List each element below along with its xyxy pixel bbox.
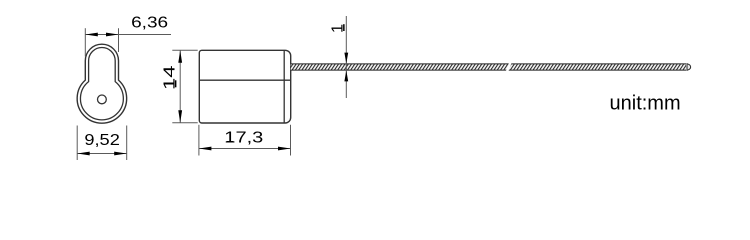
- cable tip: [687, 64, 691, 71]
- dimension 9,52 arrow right: [114, 152, 127, 156]
- body side view outline: [199, 50, 290, 123]
- dimension 9,52 extension lines: [77, 126, 127, 161]
- cable break gap: [506, 63, 512, 71]
- dimension 6,36 arrow right: [106, 33, 119, 37]
- dimension 14 label serif of digit 1: [175, 80, 177, 87]
- cable (wire rope): [291, 64, 686, 71]
- svg-text:6,36: 6,36: [131, 15, 168, 32]
- dimension 14 extension lines: [172, 50, 197, 122]
- body parting line (horizontal): [199, 79, 290, 81]
- dimension 17,3 label serif of digit 1: [227, 141, 234, 143]
- dimension 17,3 arrow right: [278, 147, 291, 151]
- dimension 1 arrow bottom: [344, 70, 348, 81]
- front view center hole: [98, 95, 107, 104]
- dimension 6,36 extension lines: [85, 28, 118, 56]
- dimension 14 arrow top: [178, 50, 182, 63]
- dimension 17,3 extension lines: [199, 125, 291, 156]
- dimension 14 arrow bottom: [178, 110, 182, 123]
- dimension 17,3 arrow left: [199, 147, 212, 151]
- front view inner outline: [80, 47, 123, 119]
- dimension 6,36 dimension line: [85, 34, 171, 36]
- dimension 1 arrow top: [344, 53, 348, 64]
- svg-text:unit:mm: unit:mm: [610, 93, 681, 115]
- dimension 9,52 arrow left: [77, 152, 90, 156]
- svg-text:9,52: 9,52: [84, 132, 120, 149]
- dimension 9,52 dimension line: [77, 153, 127, 155]
- front view outer outline (keyhole shape): [77, 44, 126, 123]
- dimension 1 label serif: [343, 24, 345, 31]
- dimension 1 leader line: [345, 16, 347, 98]
- dimension 6,36 arrow left: [85, 33, 98, 37]
- svg-text:17,3: 17,3: [224, 129, 263, 146]
- body cap line (vertical): [283, 50, 285, 123]
- dimension 17,3 dimension line: [199, 148, 291, 150]
- dimension 14 dimension line: [179, 50, 181, 122]
